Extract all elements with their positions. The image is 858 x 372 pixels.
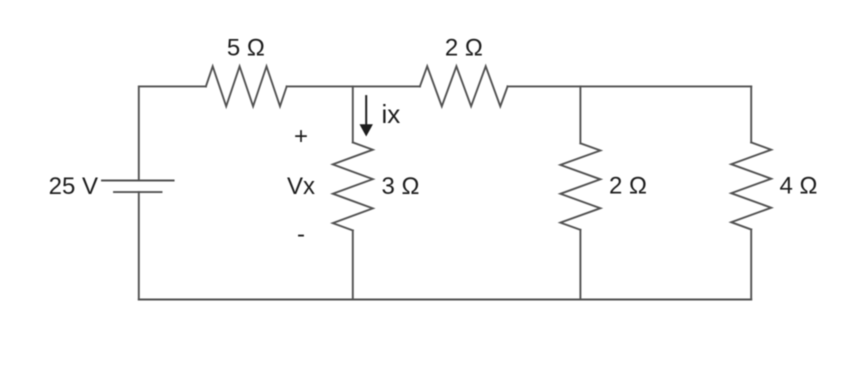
svg-text:+: +	[294, 123, 308, 150]
svg-text:3 Ω: 3 Ω	[382, 173, 420, 200]
svg-text:-: -	[297, 221, 305, 248]
svg-text:2 Ω: 2 Ω	[609, 173, 647, 200]
svg-text:Vx: Vx	[287, 173, 315, 200]
svg-text:4 Ω: 4 Ω	[780, 173, 818, 200]
svg-text:5 Ω: 5 Ω	[227, 34, 265, 61]
svg-text:2 Ω: 2 Ω	[445, 34, 483, 61]
svg-text:25 V: 25 V	[49, 173, 98, 200]
svg-text:ix: ix	[382, 99, 401, 129]
